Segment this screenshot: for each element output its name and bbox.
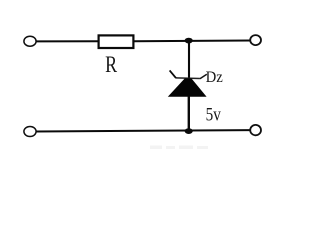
- resistor R1 body: [99, 35, 134, 48]
- zener Dz right wing: [200, 74, 207, 79]
- wire zener cathode drop: [188, 40, 190, 79]
- svg-text:Dz: Dz: [206, 68, 223, 86]
- svg-text:R: R: [105, 53, 117, 78]
- terminal circle bottom-right: [250, 125, 261, 135]
- zener diode Dz cathode bar: [176, 77, 200, 80]
- zener Dz left wing: [170, 70, 176, 78]
- wire top rail left segment: [36, 40, 99, 42]
- terminal circle top-left: [24, 36, 36, 46]
- faint cropped caption remnant: [150, 146, 208, 150]
- svg-text:5v: 5v: [206, 104, 222, 125]
- wire bottom rail: [36, 130, 250, 131]
- wire top rail right segment: [134, 40, 251, 43]
- junction dot top node: [185, 38, 193, 44]
- zener diode Dz anode triangle: [168, 78, 207, 96]
- terminal circle bottom-left: [24, 127, 36, 137]
- junction dot bottom node: [185, 128, 193, 134]
- wire zener anode drop: [188, 96, 190, 132]
- terminal circle top-right: [250, 35, 261, 45]
